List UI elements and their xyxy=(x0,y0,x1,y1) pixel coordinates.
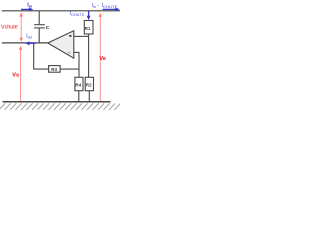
svg-text:Iin: Iin xyxy=(27,2,33,8)
svg-text:Vs: Vs xyxy=(12,73,19,79)
svg-text:R4: R4 xyxy=(75,82,81,87)
svg-text:Ve: Ve xyxy=(99,56,106,62)
svg-text:R2: R2 xyxy=(86,82,92,87)
svg-text:Vchute: Vchute xyxy=(1,25,18,31)
svg-text:R3: R3 xyxy=(51,67,57,72)
svg-text:R1: R1 xyxy=(85,26,91,31)
svg-text:c: c xyxy=(46,25,49,31)
